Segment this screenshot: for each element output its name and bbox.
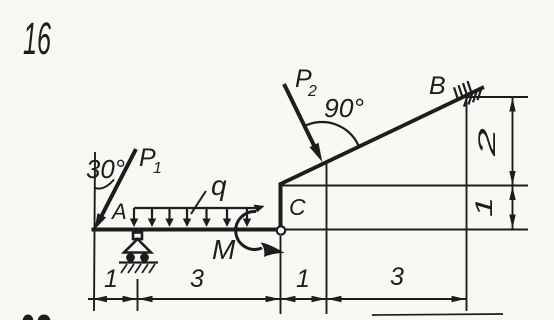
svg-text:16: 16 (23, 13, 52, 64)
svg-text:3: 3 (190, 265, 204, 293)
svg-text:1: 1 (104, 265, 118, 293)
svg-text:1: 1 (471, 197, 498, 217)
svg-text:2: 2 (474, 128, 501, 158)
svg-text:q: q (211, 170, 227, 201)
svg-text:30°: 30° (86, 154, 125, 184)
svg-text:1: 1 (153, 160, 162, 177)
svg-text:3: 3 (390, 263, 404, 291)
svg-text:2: 2 (307, 83, 317, 100)
svg-text:A: A (110, 199, 127, 224)
svg-text:C: C (289, 194, 306, 220)
svg-text:90°: 90° (324, 93, 364, 123)
svg-text:M: M (212, 234, 236, 265)
svg-text:B: B (429, 72, 446, 100)
svg-text:1: 1 (296, 265, 310, 293)
